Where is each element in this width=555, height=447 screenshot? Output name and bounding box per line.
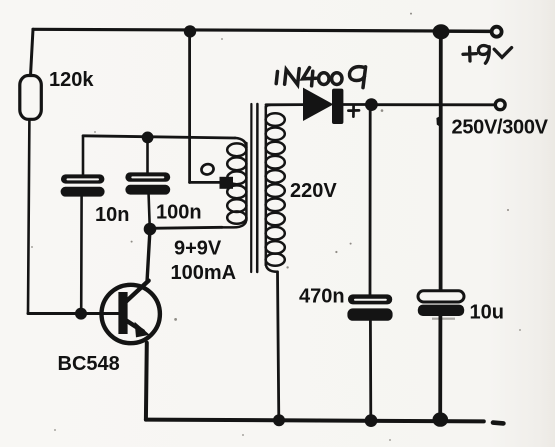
diode D 1N4004 cathode bar — [332, 89, 343, 124]
capacitor C 10u top plate (electrolytic +) — [418, 291, 464, 302]
svg-text:100n: 100n — [156, 202, 202, 224]
svg-text:10u: 10u — [470, 302, 504, 324]
capacitor C 470n top plate — [348, 294, 392, 304]
capacitor C 470n bottom plate — [347, 308, 392, 320]
smear under 10u — [432, 318, 455, 320]
wire node-B horizontal to primary bottom — [150, 227, 222, 228]
node HV junction dot — [365, 98, 378, 111]
capacitor C 10n top plate — [61, 174, 104, 183]
transistor collector stroke — [126, 281, 149, 302]
transformer T1 phase dot circle — [200, 163, 214, 176]
stray dash mark bottom right — [493, 420, 503, 425]
transformer T1 core — [250, 104, 252, 272]
wire bottom ground rail — [146, 420, 484, 422]
diode D 1N4004 triangle — [303, 88, 333, 121]
wire horizontal bus to primary top — [83, 136, 235, 138]
wire 10n bottom lead — [80, 197, 83, 314]
crossing blob artifact — [436, 116, 440, 127]
wire base line — [28, 312, 119, 315]
wire top rail to +9V terminal — [449, 30, 491, 33]
transformer T1 secondary winding — [266, 105, 285, 272]
wire top-left corner drop to resistor — [31, 29, 34, 75]
transformer T1 primary winding — [222, 138, 246, 228]
wire secondary bottom lead — [278, 272, 279, 420]
capacitor C 10n bottom plate — [61, 187, 105, 197]
wire emitter lead down — [144, 343, 149, 420]
wire diode cathode to HV node — [339, 103, 366, 106]
svg-text:9+9V: 9+9V — [174, 238, 222, 260]
wire 470n bottom lead — [369, 321, 372, 420]
diode plus polarity mark — [348, 105, 359, 116]
node collector junction dot — [144, 223, 157, 236]
svg-text:BC548: BC548 — [58, 353, 120, 375]
wire right vertical upper (junction to 10u top) — [439, 32, 443, 291]
wire 100n bottom lead — [149, 195, 150, 229]
svg-text:470n: 470n — [299, 286, 345, 308]
label IN4004 handwritten — [276, 67, 365, 88]
wire collector lead — [147, 229, 150, 282]
resistor R 120k body — [20, 76, 42, 120]
label +9v handwritten — [463, 46, 512, 64]
wire 470n top lead — [369, 105, 372, 295]
transistor emitter stroke — [126, 321, 143, 332]
transistor base bar — [118, 292, 127, 334]
wire center tap vertical — [188, 31, 191, 182]
svg-text:120k: 120k — [49, 69, 94, 91]
capacitor C 100n bottom plate — [125, 185, 170, 195]
svg-text:10n: 10n — [95, 204, 129, 226]
wire HV node to output terminal — [377, 103, 495, 106]
capacitor C 10u bottom plate — [418, 305, 464, 316]
svg-text:220V: 220V — [290, 180, 337, 202]
node 10u-ground dot — [433, 412, 449, 426]
transistor emitter arrowhead — [135, 322, 150, 338]
node base junction dot — [75, 308, 87, 320]
terminal HV output circle — [495, 100, 505, 110]
node 100n-top junction dot — [142, 132, 154, 144]
transformer T1 center tap pad — [220, 177, 234, 189]
svg-text:250V/300V: 250V/300V — [452, 117, 549, 139]
transistor Q BC548 circle — [102, 285, 160, 343]
node 470n-ground dot — [365, 414, 378, 427]
svg-text:100mA: 100mA — [171, 262, 237, 284]
wire center tap horizontal — [190, 181, 221, 184]
wire secondary top to diode anode — [266, 103, 304, 106]
node secondary-ground dot — [273, 414, 285, 426]
node top rail junction (center tap feed) — [184, 25, 196, 37]
terminal +9V circle — [492, 27, 502, 37]
wire 10u bottom lead — [438, 316, 442, 419]
node top-right junction dot — [433, 24, 450, 39]
wire top supply rail — [33, 29, 497, 31]
wire left rail (resistor bottom to base line) — [28, 119, 29, 313]
wire 100n top lead — [146, 137, 149, 172]
wire 10n top lead — [82, 137, 85, 175]
capacitor C 100n top plate — [125, 172, 170, 181]
